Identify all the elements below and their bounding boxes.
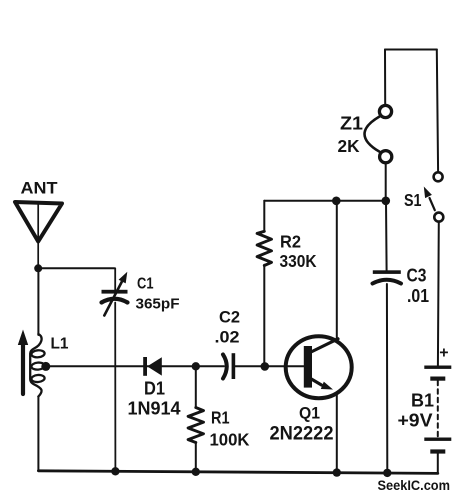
node: L1 tap: [41, 362, 50, 371]
node: C3 on rail: [383, 469, 391, 477]
resistor R1: [188, 408, 203, 443]
wire: main signal line L1 tap to C2: [46, 365, 224, 367]
wire down to C1 top: [114, 268, 116, 291]
wire Z1 upper terminal to top wire: [384, 50, 386, 106]
capacitor C2 curved plate: [223, 355, 227, 379]
wire R1 to rail: [195, 443, 197, 472]
capacitor C3 top plate: [373, 270, 401, 274]
wire: supply rail R2 to Z1: [264, 200, 386, 202]
switch S1 arm with arrow: [424, 187, 435, 211]
battery B1 bottom cell long plate: [424, 438, 451, 441]
wire: top horizontal: [385, 49, 437, 51]
earphone Z1 cord arc: [365, 117, 380, 152]
node: emitter on rail: [333, 468, 341, 476]
svg-text:ANT: ANT: [21, 180, 58, 198]
earphone Z1 upper terminal: [379, 105, 391, 117]
svg-text:2N2222: 2N2222: [270, 423, 334, 445]
wire top to S1 upper terminal: [437, 50, 438, 173]
node: Q1 base junction: [261, 362, 270, 371]
transistor Q1 emitter stroke with arrow: [311, 379, 334, 390]
svg-text:Q1: Q1: [299, 404, 320, 423]
inductor L1: [30, 334, 45, 397]
svg-text:B1: B1: [411, 391, 434, 411]
capacitor C1 adjustment arrow: [104, 272, 127, 316]
capacitor C1 bottom plate (curved): [102, 299, 128, 303]
battery B1 top cell long plate: [424, 366, 451, 369]
wire S1 to battery: [437, 222, 440, 367]
battery B1 bottom cell short plate: [430, 449, 445, 453]
wire L1 bottom to rail: [37, 397, 39, 472]
svg-text:R1: R1: [211, 408, 230, 428]
capacitor C2 straight plate: [232, 353, 236, 379]
diode D1 cathode bar: [143, 357, 147, 376]
node: D1/C2/R1 junction: [192, 362, 200, 370]
svg-text:C1: C1: [137, 276, 154, 293]
svg-text:R2: R2: [280, 232, 301, 252]
node: R1 on rail: [192, 468, 200, 476]
transistor Q1 circle: [286, 336, 352, 398]
switch S1 lower terminal: [434, 213, 443, 222]
wire: bottom ground rail: [38, 471, 437, 474]
wire antenna to C1 (horizontal): [38, 267, 114, 269]
svg-text:.02: .02: [215, 328, 240, 347]
svg-text:330K: 330K: [280, 251, 317, 271]
svg-text:1N914: 1N914: [128, 399, 181, 419]
node: C1 on rail: [111, 467, 119, 475]
node: collector junction on supply rail: [332, 197, 341, 206]
diode D1 triangle: [147, 357, 162, 375]
wire base junction up to R2: [263, 265, 265, 367]
resistor R2: [257, 231, 271, 265]
svg-text:2K: 2K: [338, 136, 360, 156]
svg-text:C3: C3: [407, 266, 427, 286]
battery B1 dashed middle: [437, 381, 439, 438]
wire collector up: [336, 201, 338, 339]
wire emitter down to rail: [336, 394, 338, 472]
capacitor C1 top plate: [102, 290, 128, 294]
wire: C2 to Q1 base: [235, 365, 305, 367]
svg-text:365pF: 365pF: [136, 296, 180, 313]
node: Z1/C3 junction on supply rail: [382, 197, 391, 206]
wire C1 bottom to ground rail: [114, 303, 116, 472]
capacitor C3 bottom plate (curved): [373, 280, 402, 284]
svg-text:100K: 100K: [210, 430, 250, 450]
wire antenna node down to L1: [37, 268, 39, 335]
transistor Q1 base bar: [304, 346, 312, 388]
wire junction down to R1: [195, 366, 197, 407]
node: antenna junction: [34, 264, 42, 272]
antenna symbol: [15, 202, 62, 242]
transistor Q1 collector stroke: [311, 339, 338, 352]
switch S1 upper terminal: [434, 172, 443, 181]
wire C3 bottom to rail: [386, 284, 388, 473]
L1 tuning arrow: [18, 330, 28, 395]
svg-text:Z1: Z1: [340, 114, 363, 134]
wire R2 top to supply rail: [263, 201, 265, 232]
wire battery to rail: [437, 454, 439, 474]
svg-text:.01: .01: [407, 286, 429, 306]
earphone Z1 lower terminal: [380, 151, 392, 163]
antenna center line: [37, 203, 39, 268]
svg-text:+: +: [439, 345, 448, 362]
svg-text:L1: L1: [51, 336, 69, 353]
svg-text:+9V: +9V: [398, 411, 433, 431]
wire C3 from supply junction down: [385, 201, 388, 271]
wire junction up to Z1 lower terminal: [385, 163, 387, 201]
battery B1 top cell short plate: [430, 377, 445, 381]
svg-text:SeekIC.com: SeekIC.com: [378, 478, 451, 493]
svg-text:C2: C2: [219, 308, 240, 327]
svg-text:D1: D1: [144, 379, 165, 399]
svg-text:S1: S1: [404, 190, 422, 210]
